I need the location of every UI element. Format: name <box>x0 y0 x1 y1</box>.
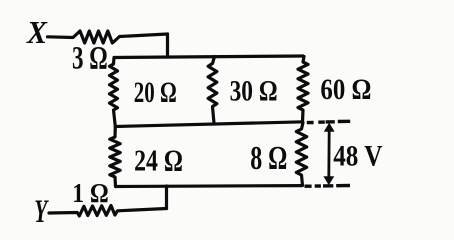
svg-text:1 Ω: 1 Ω <box>72 178 109 208</box>
svg-text:3 Ω: 3 Ω <box>72 39 108 75</box>
svg-text:30 Ω: 30 Ω <box>230 74 278 107</box>
svg-text:24 Ω: 24 Ω <box>134 143 183 178</box>
svg-text:20 Ω: 20 Ω <box>134 77 177 109</box>
svg-text:X: X <box>26 15 48 50</box>
svg-text:60 Ω: 60 Ω <box>320 74 371 106</box>
svg-text:48 V: 48 V <box>333 140 382 173</box>
svg-text:Y: Y <box>34 194 49 227</box>
svg-text:8 Ω: 8 Ω <box>250 140 287 177</box>
